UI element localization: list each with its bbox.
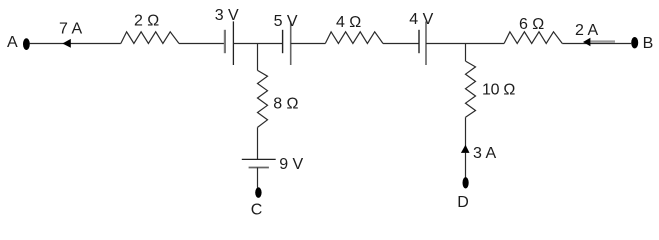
label 6 ohm	[519, 16, 544, 33]
label A	[7, 34, 18, 51]
svg-text:10 Ω: 10 Ω	[482, 81, 515, 98]
battery V1 3 V	[225, 21, 234, 65]
svg-text:5 V: 5 V	[274, 13, 298, 30]
resistor R1 2 ohm	[121, 32, 179, 44]
label 5 V	[274, 13, 298, 30]
junction node E	[257, 44, 259, 71]
label 4 ohm	[336, 14, 361, 31]
svg-text:C: C	[251, 202, 263, 219]
node D	[463, 177, 469, 188]
wire R1 to V1	[179, 43, 225, 45]
label B	[643, 35, 654, 52]
node B	[631, 37, 638, 48]
label 7 A	[59, 21, 82, 38]
battery V4 9 V	[242, 159, 276, 167]
svg-text:2 Ω: 2 Ω	[134, 13, 159, 30]
wire V1 to V2	[233, 43, 282, 45]
wire V2 to R2	[291, 43, 326, 45]
svg-text:2 A: 2 A	[575, 22, 598, 39]
label 4 V	[409, 11, 433, 28]
battery V3 4 V	[419, 21, 426, 65]
label 2 ohm	[134, 13, 159, 30]
resistor R5 10 ohm	[466, 61, 476, 117]
label 2 A	[575, 22, 598, 39]
svg-text:D: D	[457, 194, 469, 211]
svg-text:B: B	[643, 35, 654, 52]
resistor R2 4 ohm	[325, 32, 383, 44]
label D	[457, 194, 469, 211]
current arrow 2 A	[583, 38, 615, 47]
label 3 V	[215, 7, 239, 24]
node C	[255, 187, 261, 198]
svg-text:9 V: 9 V	[279, 156, 303, 173]
wire V4 to C	[257, 168, 259, 188]
junction node F	[465, 44, 467, 62]
label 10 ohm	[482, 81, 515, 98]
label 3 A	[473, 145, 496, 162]
wire V3 to R3	[426, 43, 504, 45]
svg-text:6 Ω: 6 Ω	[519, 16, 544, 33]
current arrow 7 A	[62, 39, 70, 48]
wire A to R1	[30, 43, 121, 45]
svg-text:7 A: 7 A	[59, 21, 82, 38]
wire R3 to B	[562, 43, 631, 45]
wire R5 to arrow	[465, 117, 467, 153]
wire R4 to V4	[257, 127, 259, 159]
svg-text:3 V: 3 V	[215, 7, 239, 24]
current arrow 3 A	[461, 145, 470, 153]
wire arrow to D	[465, 153, 467, 178]
label C	[251, 202, 263, 219]
battery V2 5 V	[283, 21, 291, 65]
svg-text:A: A	[7, 34, 18, 51]
resistor R4 8 ohm	[258, 70, 268, 127]
label 8 ohm	[273, 96, 298, 113]
label 9 V	[279, 156, 303, 173]
svg-text:4 V: 4 V	[409, 11, 433, 28]
node A	[23, 38, 30, 50]
resistor R3 6 ohm	[504, 32, 562, 44]
svg-text:3 A: 3 A	[473, 145, 496, 162]
svg-text:4 Ω: 4 Ω	[336, 14, 361, 31]
wire R2 to V3	[383, 43, 419, 45]
svg-text:8 Ω: 8 Ω	[273, 96, 298, 113]
